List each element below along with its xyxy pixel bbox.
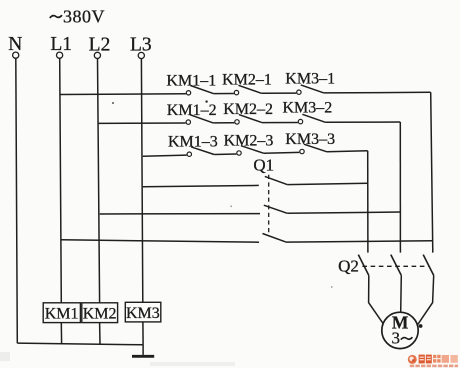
switch Q2 pole 3 blade <box>423 255 434 276</box>
svg-text:KM2–1: KM2–1 <box>222 72 272 89</box>
svg-text:KM2–2: KM2–2 <box>223 101 273 118</box>
svg-text:Q2: Q2 <box>338 257 359 276</box>
wire Q2 pole 2 to motor <box>400 275 403 312</box>
wire row 2 segment 1 <box>99 122 186 124</box>
switch Q1 gang link (dashed) <box>268 175 270 235</box>
switch Q2 gang link (dashed) <box>362 265 428 267</box>
svg-text:KM2: KM2 <box>83 305 117 322</box>
contactor coil KM1 (box) <box>43 303 80 323</box>
ground symbol <box>132 345 154 357</box>
svg-text:KM1–1: KM1–1 <box>166 72 216 89</box>
wire Q1 pole 2 input <box>100 213 260 215</box>
wire row 2 segment 3 <box>262 122 298 124</box>
contactor contact KM2-2 (NO contact: fixed-contact circle and blade) <box>235 115 262 125</box>
contactor contact KM1-3 (NO contact: fixed-contact circle and blade) <box>187 147 214 157</box>
wire L1 vertical bus <box>60 58 62 303</box>
wire row 2 segment 4 <box>325 121 400 123</box>
svg-text:KM3–2: KM3–2 <box>283 100 333 117</box>
switch Q1 pole 1 blade <box>265 176 287 184</box>
wire L3 vertical bus <box>141 59 142 303</box>
contactor coil KM3 (box) <box>125 302 161 322</box>
switch Q1 pole 3 blade <box>263 234 287 243</box>
contactor contact KM2-1 (NO contact: fixed-contact circle and blade) <box>234 85 261 95</box>
wire Q2 pole 3 to motor <box>418 275 434 324</box>
svg-text:3: 3 <box>392 329 401 348</box>
contactor contact KM3-3 (NO contact: fixed-contact circle and blade) <box>300 144 327 154</box>
contactor contact KM3-1 (NO contact: fixed-contact circle and blade) <box>297 85 324 95</box>
terminal N <box>13 52 19 58</box>
wire row 3 segment 4 <box>327 151 368 152</box>
wire row 3 segment 3 <box>264 151 300 154</box>
svg-text:KM2–3: KM2–3 <box>224 133 274 150</box>
svg-text:Q1: Q1 <box>253 156 274 175</box>
switch Q2 pole 1 blade <box>358 255 369 276</box>
wire row 3 segment 2 <box>214 153 236 156</box>
svg-text:KM3–3: KM3–3 <box>285 131 335 148</box>
wire KM3 coil to neutral/ground <box>142 322 144 345</box>
wire row 3 drop (phase C output vertical, x~368) <box>367 151 369 253</box>
contactor contact KM2-3 (NO contact: fixed-contact circle and blade) <box>237 146 264 156</box>
wire N vertical bus <box>16 58 17 343</box>
wire L2 vertical bus <box>98 59 100 303</box>
wire Q1 pole 1 output <box>287 183 368 184</box>
wire Q1 pole 1 input <box>143 185 259 186</box>
wire Q1 pole 3 input <box>61 240 259 242</box>
wire KM2 coil to neutral <box>99 323 101 344</box>
switch Q1 pole 2 blade <box>264 205 288 213</box>
wire row 1 segment 4 <box>324 91 431 94</box>
svg-text:KM1–2: KM1–2 <box>167 102 217 119</box>
contactor contact KM1-2 (NO contact: fixed-contact circle and blade) <box>186 115 213 125</box>
contactor contact KM1-1 (NO contact: fixed-contact circle and blade) <box>186 86 213 96</box>
wire row 1 drop (phase A output vertical, x~431) <box>431 92 433 252</box>
wire Q1 pole 2 output <box>287 212 400 213</box>
contactor coil KM2 (box) <box>82 303 118 323</box>
wire row 1 segment 2 <box>213 93 234 95</box>
terminal L2 <box>94 52 100 58</box>
junction blob at motor right terminal <box>419 324 423 328</box>
label ~380V supply voltage <box>50 15 62 18</box>
motor M circle <box>382 312 418 348</box>
terminal L1 <box>57 52 63 58</box>
wire Q2 pole 1 to motor <box>369 275 384 323</box>
wire row 2 segment 2 <box>213 122 234 124</box>
wire row 1 segment 1 <box>60 93 186 96</box>
svg-text:KM1: KM1 <box>45 305 79 322</box>
wire neutral bottom bus <box>17 343 143 345</box>
terminal L3 <box>138 52 144 58</box>
wire row 1 segment 3 <box>261 92 296 94</box>
svg-text:KM3: KM3 <box>126 305 160 322</box>
(scan speck, decorative) <box>0 100 333 366</box>
svg-text:380V: 380V <box>63 6 105 26</box>
watermark logo (red, bottom right) <box>408 355 458 368</box>
wire KM1 coil to neutral <box>60 323 62 344</box>
wire row 3 segment 1 <box>143 155 187 156</box>
wire Q1 pole 3 output <box>286 241 433 242</box>
svg-text:KM3–1: KM3–1 <box>285 70 335 87</box>
wire row 2 drop (phase B output vertical, x~400) <box>399 122 401 253</box>
contactor contact KM3-2 (NO contact: fixed-contact circle and blade) <box>298 114 325 124</box>
switch Q2 pole 2 blade <box>391 255 402 276</box>
